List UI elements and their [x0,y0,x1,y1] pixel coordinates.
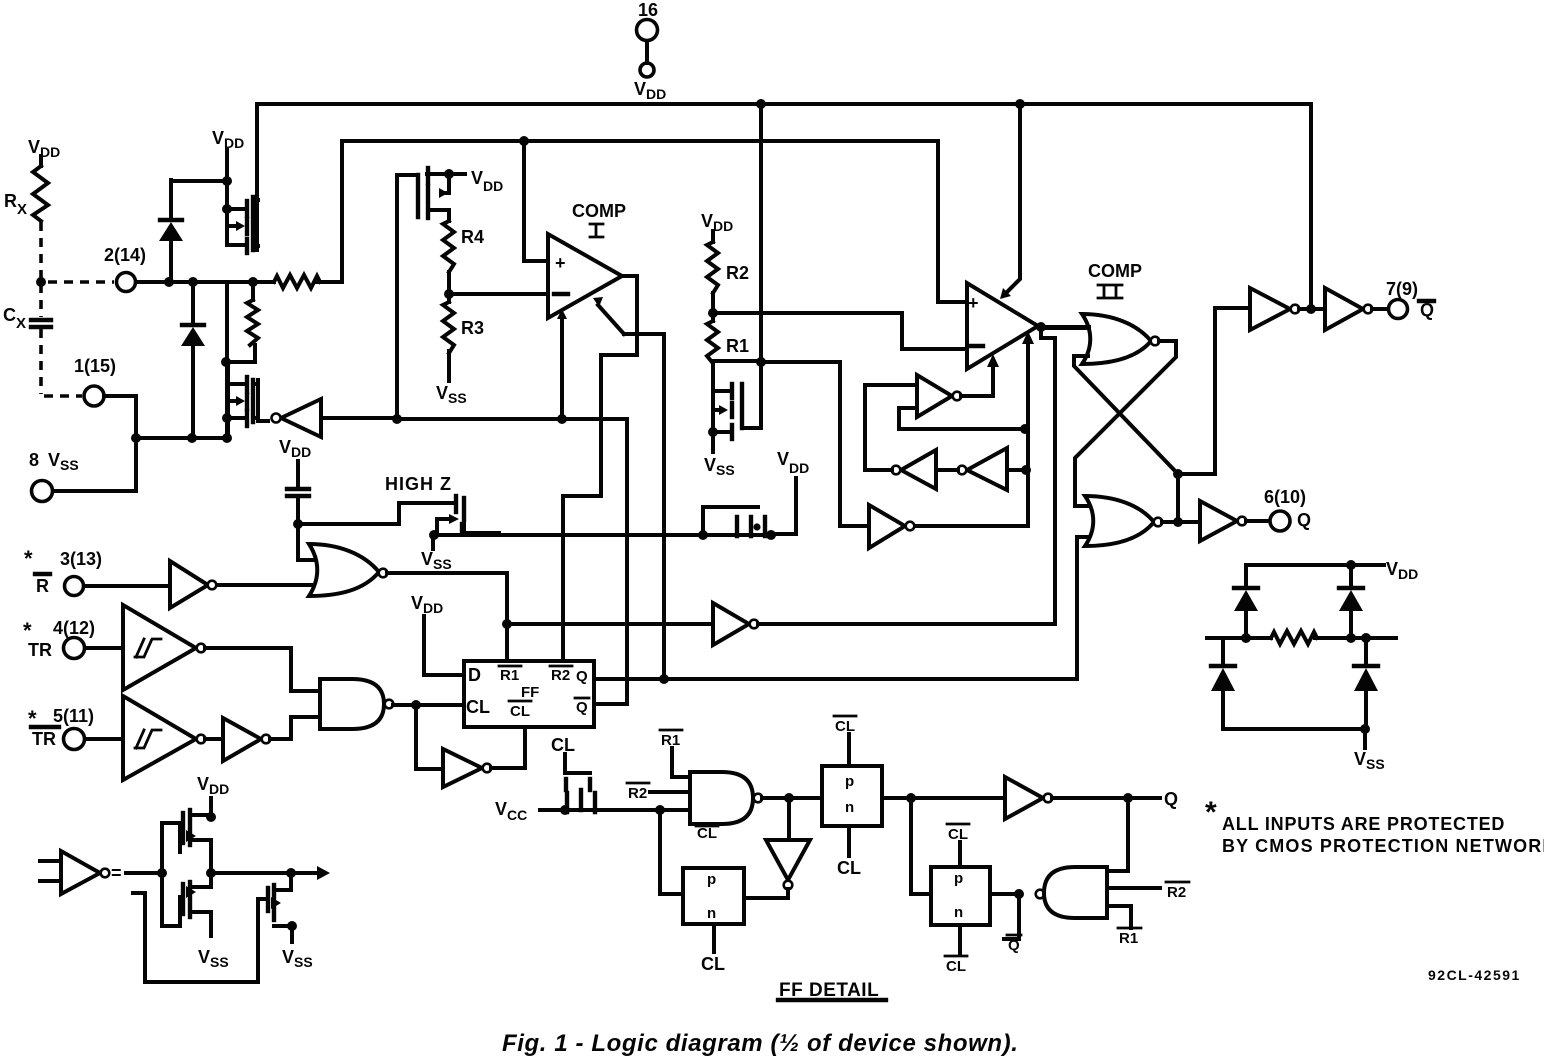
svg-text:V: V [471,168,483,188]
svg-text:R2: R2 [551,667,570,684]
svg-text:CL: CL [697,825,717,842]
svg-text:C: C [3,305,16,325]
svg-text:R3: R3 [461,318,484,338]
svg-text:R1: R1 [1119,930,1138,947]
svg-text:DD: DD [789,460,809,476]
svg-text:92CL-42591: 92CL-42591 [1428,967,1521,983]
svg-text:CC: CC [507,807,527,823]
svg-text:p: p [707,871,716,888]
svg-text:DD: DD [291,444,311,460]
svg-text:R4: R4 [461,227,484,247]
svg-text:FF: FF [521,684,539,701]
svg-text:SS: SS [210,954,229,970]
svg-text:SS: SS [60,457,79,473]
svg-text:SS: SS [448,390,467,406]
svg-text:DD: DD [423,600,443,616]
svg-text:R2: R2 [1167,884,1186,901]
svg-text:HIGH Z: HIGH Z [385,474,452,494]
svg-text:*: * [1205,796,1217,829]
svg-text:n: n [954,904,963,921]
svg-text:Q: Q [1164,789,1178,809]
svg-text:*: * [24,546,33,571]
svg-text:V: V [634,79,646,99]
svg-text:16: 16 [638,0,658,20]
svg-text:DD: DD [209,781,229,797]
svg-text:Q: Q [576,699,588,716]
svg-text:=: = [111,863,122,883]
svg-text:R1: R1 [500,667,519,684]
svg-text:CL: CL [510,703,530,720]
svg-text:SS: SS [1366,756,1385,772]
svg-text:1(15): 1(15) [74,356,116,376]
svg-text:V: V [777,449,789,469]
svg-text:p: p [954,870,963,887]
svg-text:ALL INPUTS ARE PROTECTED: ALL INPUTS ARE PROTECTED [1222,814,1505,834]
svg-text:Fig. 1 - Logic diagram (½ of d: Fig. 1 - Logic diagram (½ of device show… [502,1030,1019,1057]
svg-text:+: + [555,253,566,273]
svg-text:3(13): 3(13) [60,549,102,569]
svg-text:2(14): 2(14) [104,245,146,265]
svg-text:Q: Q [576,668,588,685]
svg-text:SS: SS [433,556,452,572]
svg-text:COMP: COMP [1088,261,1142,281]
svg-text:n: n [845,799,854,816]
svg-text:CL: CL [946,958,966,975]
svg-text:SS: SS [716,462,735,478]
svg-text:V: V [282,947,294,967]
svg-text:V: V [421,549,433,569]
svg-text:DD: DD [713,218,733,234]
svg-text:V: V [704,455,716,475]
svg-text:DD: DD [646,86,666,102]
svg-text:V: V [495,799,507,819]
svg-text:n: n [707,905,716,922]
svg-text:COMP: COMP [572,201,626,221]
svg-text:V: V [197,774,209,794]
svg-text:SS: SS [294,954,313,970]
svg-text:Q: Q [1297,510,1311,530]
svg-text:R1: R1 [726,336,749,356]
svg-text:V: V [198,947,210,967]
svg-text:TR: TR [32,729,56,749]
svg-text:5(11): 5(11) [53,706,94,726]
svg-text:X: X [17,201,27,218]
svg-text:7(9): 7(9) [1386,279,1418,299]
svg-text:V: V [1386,559,1398,579]
svg-text:V: V [48,450,60,470]
svg-text:+: + [968,293,979,313]
svg-text:R2: R2 [726,263,749,283]
svg-text:R2: R2 [628,785,647,802]
svg-text:V: V [436,383,448,403]
svg-text:V: V [411,593,423,613]
svg-text:p: p [845,773,854,790]
svg-text:CL: CL [837,858,861,878]
svg-text:DD: DD [40,144,60,160]
svg-text:8: 8 [29,450,39,470]
svg-text:R: R [4,191,17,211]
svg-text:DD: DD [1398,566,1418,582]
svg-text:CL: CL [701,954,725,974]
svg-text:D: D [468,665,481,685]
svg-text:BY CMOS PROTECTION NETWORK: BY CMOS PROTECTION NETWORK [1222,836,1544,856]
svg-text:CL: CL [835,718,855,735]
svg-text:V: V [28,137,40,157]
svg-text:TR: TR [28,640,52,660]
svg-text:X: X [16,315,26,332]
svg-text:6(10): 6(10) [1264,487,1306,507]
svg-text:CL: CL [466,697,490,717]
svg-text:V: V [212,128,224,148]
svg-text:R: R [36,576,49,596]
svg-text:DD: DD [483,178,503,194]
svg-text:V: V [1354,749,1366,769]
svg-text:4(12): 4(12) [53,618,95,638]
svg-text:V: V [701,211,713,231]
svg-text:V: V [279,437,291,457]
svg-text:Q: Q [1008,937,1020,954]
